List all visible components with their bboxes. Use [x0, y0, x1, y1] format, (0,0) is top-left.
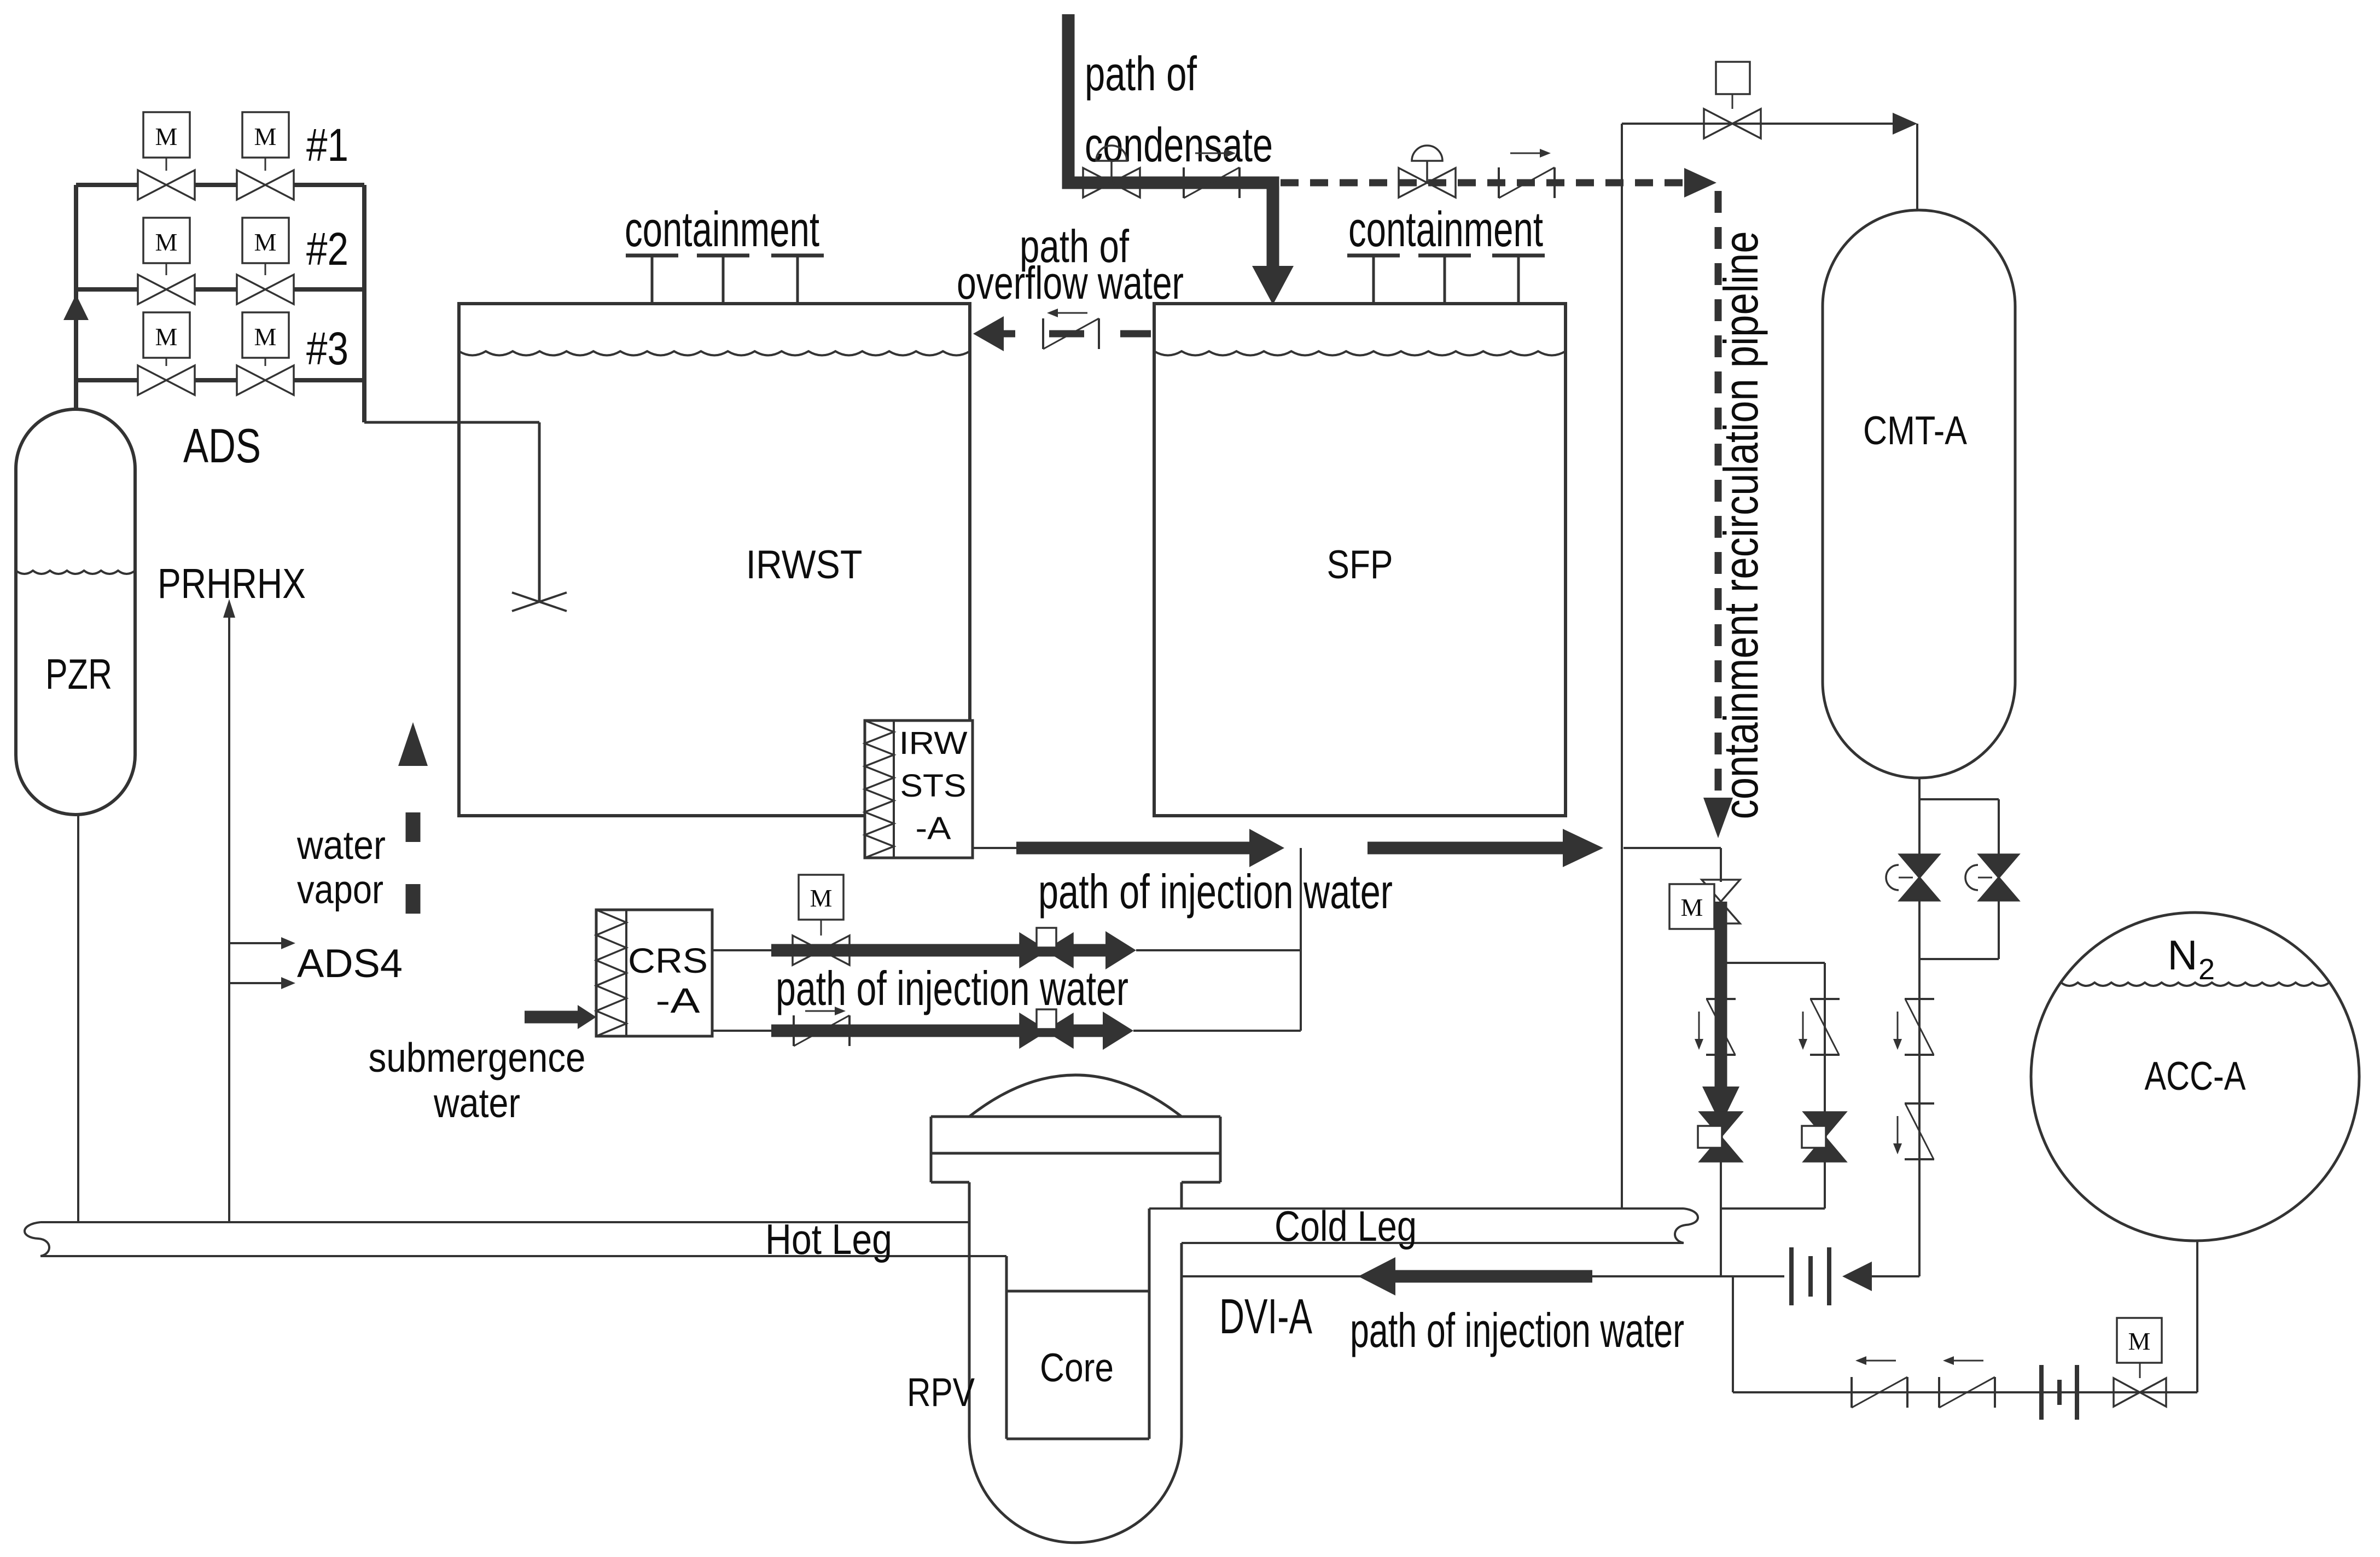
svg-text:vapor: vapor	[297, 868, 383, 912]
svg-text:CMT-A: CMT-A	[1863, 409, 1967, 453]
svg-text:path of injection water: path of injection water	[1038, 864, 1393, 919]
svg-text:RPV: RPV	[907, 1370, 975, 1415]
svg-text:2: 2	[2198, 953, 2215, 986]
svg-text:STS: STS	[900, 768, 967, 804]
svg-text:ACC-A: ACC-A	[2145, 1054, 2246, 1099]
svg-text:CRS: CRS	[628, 941, 708, 980]
svg-text:M: M	[254, 228, 277, 256]
svg-text:ADS4: ADS4	[297, 942, 403, 986]
svg-text:PZR: PZR	[45, 650, 112, 698]
svg-text:Hot Leg: Hot Leg	[765, 1215, 892, 1263]
svg-text:-A: -A	[916, 811, 951, 846]
svg-text:#1: #1	[306, 119, 348, 171]
svg-text:IRW: IRW	[899, 725, 968, 761]
svg-text:path of injection water: path of injection water	[1350, 1303, 1684, 1357]
svg-text:M: M	[254, 323, 277, 351]
svg-text:SFP: SFP	[1327, 543, 1393, 587]
svg-text:path of injection water: path of injection water	[776, 961, 1128, 1015]
svg-text:#2: #2	[306, 223, 348, 275]
svg-text:Cold Leg: Cold Leg	[1275, 1202, 1417, 1250]
svg-text:M: M	[2128, 1327, 2151, 1355]
svg-text:M: M	[155, 123, 178, 150]
svg-text:-A: -A	[656, 981, 700, 1020]
svg-text:ADS: ADS	[183, 419, 261, 473]
svg-text:overflow water: overflow water	[957, 257, 1184, 309]
svg-text:M: M	[1681, 893, 1703, 921]
svg-text:containment recirculation pipe: containment recirculation pipeline	[1714, 231, 1768, 820]
svg-text:M: M	[254, 123, 277, 150]
svg-text:#3: #3	[306, 323, 348, 374]
svg-text:DVI-A: DVI-A	[1219, 1289, 1312, 1344]
svg-text:water: water	[433, 1080, 520, 1126]
svg-text:path of: path of	[1085, 47, 1197, 101]
svg-text:IRWST: IRWST	[746, 543, 863, 587]
svg-text:Core: Core	[1040, 1346, 1114, 1390]
svg-text:submergence: submergence	[369, 1035, 586, 1080]
svg-text:M: M	[810, 884, 833, 912]
svg-text:containment: containment	[1348, 202, 1543, 257]
svg-text:PRHRHX: PRHRHX	[158, 560, 306, 607]
svg-text:containment: containment	[625, 202, 819, 257]
svg-text:water: water	[296, 823, 386, 868]
svg-text:M: M	[155, 228, 178, 256]
svg-text:N: N	[2168, 932, 2198, 979]
svg-text:M: M	[155, 323, 178, 351]
